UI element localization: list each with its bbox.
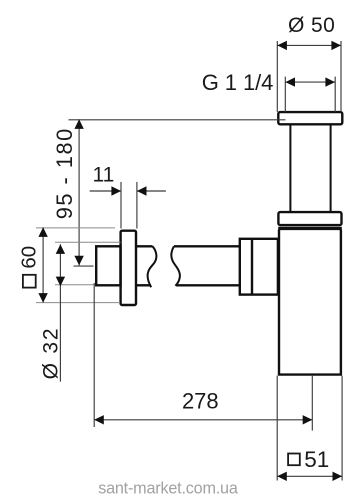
dim square60 top extension [36, 227, 115, 229]
label square 60 symbol [23, 275, 36, 288]
dim 11 line left [90, 190, 121, 192]
vertical tube wall left [289, 125, 291, 212]
svg-text:60: 60 [17, 246, 40, 269]
body top flange [278, 212, 341, 225]
arrowhead Ø32 top [56, 244, 65, 254]
dim G extension right [334, 77, 336, 112]
vertical tube wall right [330, 125, 332, 212]
dim 95-180 top extension [69, 119, 286, 121]
dim 11 line right [137, 190, 166, 192]
dim 95-180 line [78, 119, 80, 265]
wall escutcheon flange [121, 231, 136, 305]
arrowhead Ø32 bottom [56, 277, 65, 287]
pipe segment B top [174, 245, 240, 247]
svg-text:Ø 32: Ø 32 [40, 327, 63, 380]
dim 11 extension left [120, 182, 122, 229]
svg-text:278: 278 [182, 388, 219, 413]
label square 51 symbol [288, 454, 300, 466]
dim G line [285, 81, 335, 83]
coupling nut [240, 239, 278, 295]
dim square51 extension right [341, 376, 343, 481]
arrowhead square60 bottom [38, 293, 47, 303]
trap body right wall [340, 230, 342, 375]
dim Ø32 top extension [55, 241, 121, 243]
coupling nut divider [251, 239, 253, 295]
top flange (siphon pipe cap) [278, 112, 342, 124]
dim Ø32 bottom extension [55, 284, 94, 286]
svg-text:51: 51 [304, 447, 329, 472]
dim Ø50 line [277, 44, 341, 46]
dim Ø50 extension left [276, 41, 278, 112]
body rim thick line [278, 227, 342, 230]
arrowhead square51 right [333, 472, 343, 481]
arrowhead 278 left [94, 415, 104, 424]
arrowhead Ø50 right [331, 41, 341, 50]
pipe break curve 1 [148, 246, 157, 287]
inlet pipe stub [96, 246, 120, 285]
dim Ø32 line [59, 244, 61, 381]
arrowhead 95-180 top [74, 119, 83, 129]
arrowhead 278 right [303, 415, 313, 424]
dim 278 right reference (body axis) [311, 375, 313, 431]
arrowhead G left [285, 77, 295, 86]
arrowhead square51 left [277, 472, 287, 481]
arrowhead G right [325, 77, 335, 86]
arrowhead 11 right [137, 186, 147, 195]
arrowhead 11 left [111, 186, 121, 195]
dim Ø50 extension right [340, 41, 342, 112]
arrowhead 95-180 bottom [74, 256, 83, 266]
svg-text:G 1 1/4: G 1 1/4 [202, 70, 273, 95]
dim 278 left extension [93, 283, 95, 427]
pipe segment B bottom [176, 284, 240, 286]
dim G extension left [284, 77, 286, 112]
dim 95-180 bottom extension (pipe axis) [74, 265, 94, 267]
svg-text:sant-market.com.ua: sant-market.com.ua [98, 480, 238, 498]
arrowhead Ø50 left [277, 41, 287, 50]
arrowhead square60 top [38, 227, 47, 237]
dim square51 extension left [276, 376, 278, 481]
dim square60 bottom extension [36, 302, 120, 304]
svg-text:11: 11 [92, 163, 114, 186]
dim square51 line [277, 475, 342, 477]
dim 278 line [94, 419, 312, 421]
trap body left wall [278, 230, 280, 375]
dim square60 line [42, 227, 44, 302]
pipe segment A top [136, 245, 153, 247]
svg-text:Ø 50: Ø 50 [288, 14, 335, 37]
dim 11 extension right [136, 182, 138, 229]
pipe break curve 2 [171, 246, 179, 285]
svg-text:95 - 180: 95 - 180 [52, 127, 77, 219]
pipe segment A bottom [136, 284, 151, 286]
trap body bottom [278, 373, 342, 375]
